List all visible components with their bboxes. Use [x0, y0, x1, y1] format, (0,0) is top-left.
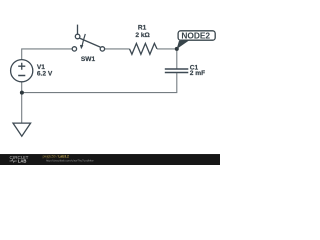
svg-text:SW1: SW1: [81, 56, 96, 63]
svg-text:6.2 V: 6.2 V: [37, 70, 53, 77]
svg-text:2 kΩ: 2 kΩ: [135, 32, 150, 39]
svg-text:R1: R1: [138, 25, 147, 32]
svg-text:LAB: LAB: [18, 159, 27, 164]
svg-text:http://circuitlab.com/c/sw7hc7: http://circuitlab.com/c/sw7hc7uxdhkw: [46, 158, 94, 162]
svg-text:NODE2: NODE2: [181, 31, 210, 41]
svg-text:2 mF: 2 mF: [190, 70, 205, 77]
